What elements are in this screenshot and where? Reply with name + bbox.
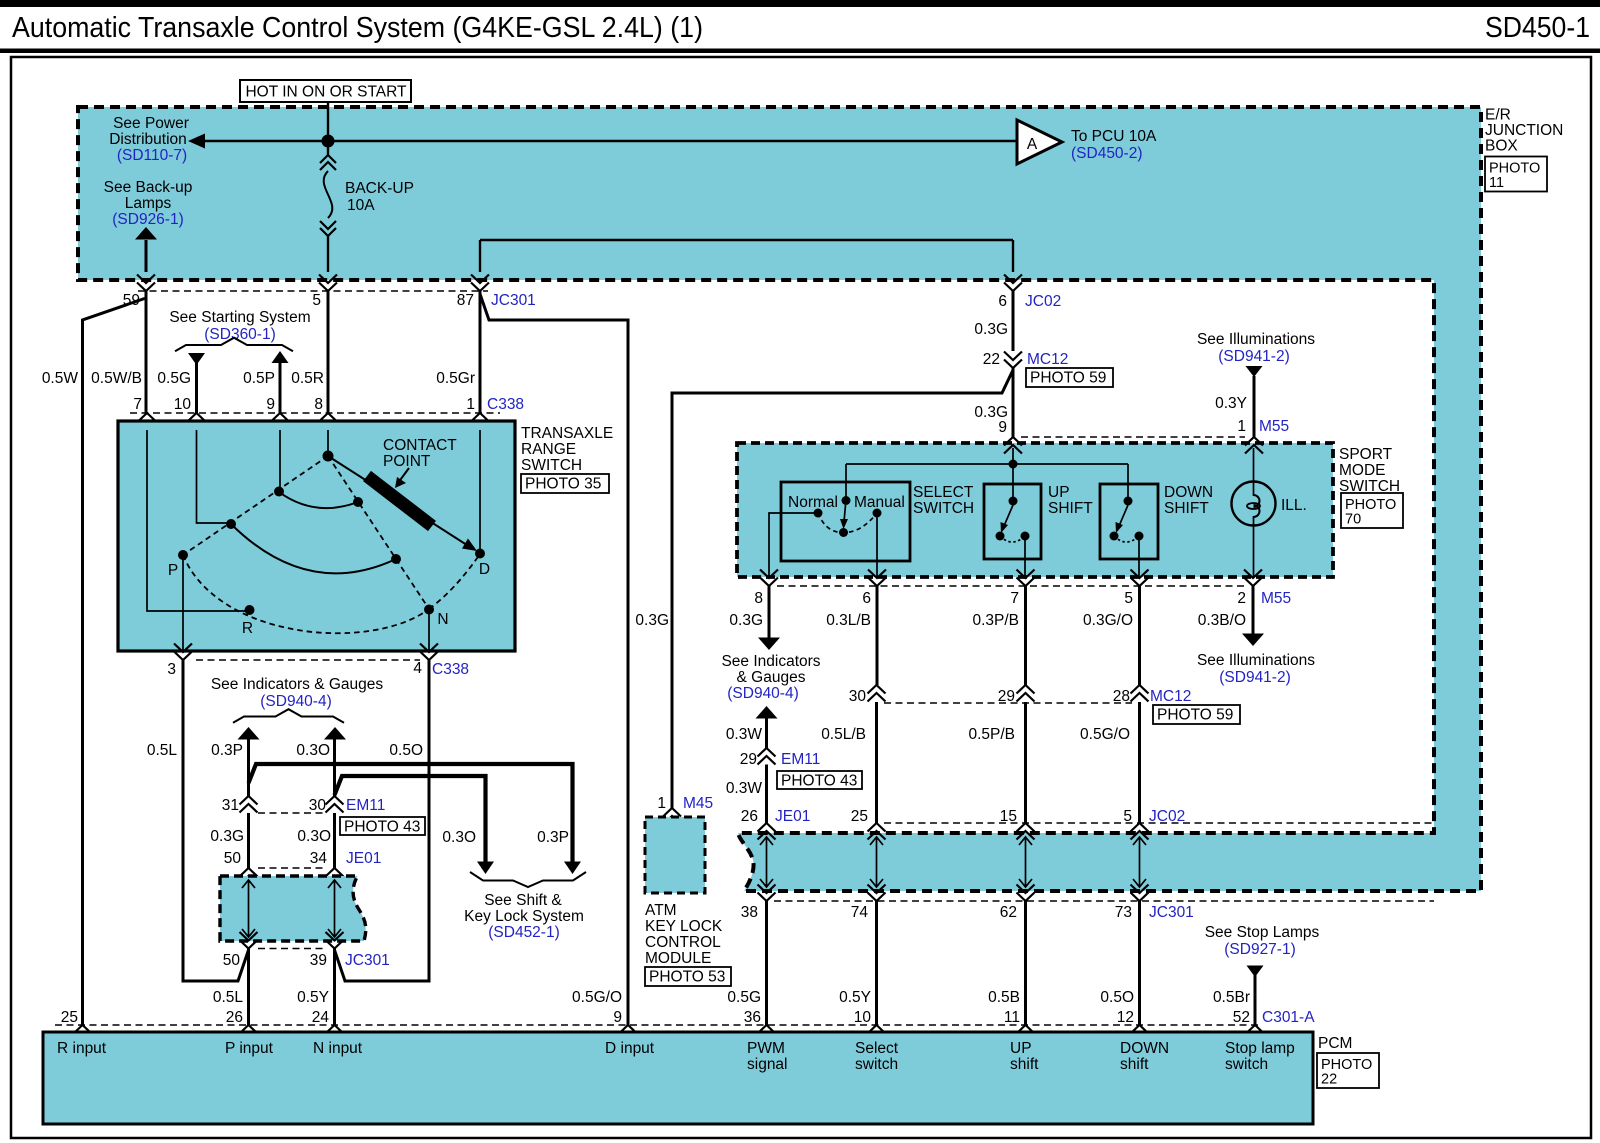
svg-text:ILL.: ILL.: [1281, 497, 1307, 514]
svg-text:10A: 10A: [347, 197, 375, 214]
harness E/R junction box shaded region: [78, 107, 1481, 891]
svg-text:12: 12: [1117, 1009, 1134, 1026]
connector PCM 26: [240, 1025, 258, 1042]
connector pin 9 C338: [271, 413, 289, 430]
svg-text:SWITCH: SWITCH: [913, 500, 974, 517]
pin line JC301 row: [138, 290, 488, 292]
svg-text:0.5L/B: 0.5L/B: [821, 726, 866, 743]
wire TRS pin1 to D: [479, 430, 481, 552]
wire manual to pin 6: [876, 513, 878, 577]
svg-text:Select: Select: [855, 1040, 899, 1057]
wire 0.3O to EM11-30: [333, 739, 336, 796]
svg-text:(SD940-4): (SD940-4): [260, 693, 332, 710]
pin line PCM: [55, 1024, 1258, 1026]
svg-text:M45: M45: [683, 795, 713, 812]
svg-text:0.3P/B: 0.3P/B: [972, 612, 1019, 629]
down shift top node: [1124, 497, 1133, 506]
down shift dotted arc: [1114, 536, 1139, 542]
wire TRS pin8 pivot: [327, 430, 329, 456]
connector 30 EM11: [326, 796, 344, 813]
connector 1 sport: [1245, 437, 1263, 454]
HOT IN ON OR START box: [240, 80, 411, 102]
pin line sport bottom: [777, 585, 1244, 587]
connector 50 JE01: [240, 868, 258, 885]
arrow see illuminations top: [1246, 366, 1263, 377]
arrow pin8 to gauges: [758, 638, 780, 651]
select normal node: [814, 509, 823, 518]
connector PCM 9: [619, 1025, 637, 1042]
node TRS R: [245, 605, 255, 615]
svg-text:9: 9: [266, 396, 275, 413]
pin line sport top: [1021, 436, 1245, 438]
wire 0.5L pin3 to JC301-50: [183, 660, 249, 981]
PCM box: [43, 1032, 1313, 1124]
svg-text:See Illuminations: See Illuminations: [1197, 331, 1315, 348]
svg-text:R input: R input: [57, 1040, 107, 1057]
svg-text:signal: signal: [747, 1056, 788, 1073]
arrow 0.3P shift key lock: [564, 862, 581, 875]
svg-text:See Back-up: See Back-up: [104, 179, 193, 196]
svg-text:1: 1: [1237, 418, 1246, 435]
svg-text:shift: shift: [1010, 1056, 1039, 1073]
pin line band top: [884, 822, 1434, 824]
svg-text:5: 5: [1124, 590, 1133, 607]
wire power feed horizontal: [204, 140, 1017, 142]
connector 5 sport: [1131, 570, 1149, 587]
svg-text:0.5G: 0.5G: [727, 989, 761, 1006]
connector 39 JC301: [326, 932, 344, 949]
connector PCM 12: [1131, 1025, 1149, 1042]
svg-text:0.3O: 0.3O: [296, 742, 330, 759]
svg-text:JUNCTION: JUNCTION: [1485, 122, 1563, 139]
wire MC12-30 to JE01-25: [875, 702, 878, 823]
svg-text:0.5R: 0.5R: [291, 370, 324, 387]
wire bus to down shift: [1127, 464, 1129, 501]
photo 43 box right: [777, 771, 862, 789]
svg-text:9: 9: [998, 419, 1007, 436]
wire EM11-29 to JE01-26: [765, 765, 768, 824]
svg-text:D: D: [479, 561, 490, 578]
node TRS P: [178, 550, 188, 560]
junction arrow left 50: [242, 880, 255, 937]
svg-text:26: 26: [226, 1009, 243, 1026]
svg-text:8: 8: [754, 590, 763, 607]
up shift top node: [1009, 497, 1018, 506]
svg-text:RANGE: RANGE: [521, 441, 576, 458]
wire down shift to pin 5: [1138, 536, 1140, 577]
wire 73 to PCM 12: [1138, 901, 1141, 1025]
svg-text:MODE: MODE: [1339, 462, 1386, 479]
up shift dotted arc: [1000, 536, 1025, 542]
pin line C338 top: [130, 412, 500, 414]
svg-text:CONTROL: CONTROL: [645, 934, 721, 951]
svg-text:5: 5: [1123, 808, 1132, 825]
svg-text:0.5Y: 0.5Y: [297, 989, 329, 1006]
svg-text:11: 11: [1004, 1009, 1020, 1026]
svg-text:1: 1: [466, 396, 475, 413]
svg-text:(SD941-2): (SD941-2): [1218, 348, 1290, 365]
connector 38 JC301 band: [758, 885, 776, 902]
wire branch 22 to M45: [672, 370, 1013, 808]
wire pin6 to MC12-30: [876, 586, 879, 685]
wire pin8 down: [768, 586, 771, 638]
svg-text:0.5L: 0.5L: [147, 742, 178, 759]
svg-text:JC301: JC301: [345, 952, 390, 969]
ATM key lock control module box: [645, 817, 705, 893]
svg-text:Normal: Normal: [788, 494, 838, 511]
wire pin5 to MC12-28: [1138, 586, 1141, 685]
svg-text:25: 25: [61, 1009, 78, 1026]
connector 8 sport: [760, 570, 778, 587]
connector 28 MC12: [1131, 685, 1149, 702]
svg-text:26: 26: [741, 808, 758, 825]
node TRS D: [475, 549, 485, 559]
select dashed arc: [818, 513, 877, 533]
svg-text:10: 10: [174, 396, 192, 413]
svg-text:A: A: [1027, 136, 1038, 153]
arrow 0.3O shift key lock: [477, 862, 494, 875]
wire 0.5Gr 87 to pin 1: [479, 291, 482, 413]
wire TRS P to pin 3: [182, 556, 184, 651]
wire TRS N to pin 4: [428, 610, 430, 651]
svg-text:See Shift &: See Shift &: [484, 892, 562, 909]
svg-text:TRANSAXLE: TRANSAXLE: [521, 425, 613, 442]
node power junction: [322, 135, 335, 148]
svg-text:PHOTO 53: PHOTO 53: [649, 969, 725, 986]
node TRS contact 10: [226, 519, 236, 529]
svg-text:SHIFT: SHIFT: [1164, 500, 1209, 517]
svg-text:EM11: EM11: [781, 751, 820, 768]
wire TRS pin7 to R: [147, 430, 249, 611]
svg-text:Lamps: Lamps: [125, 195, 172, 212]
svg-text:M55: M55: [1259, 418, 1289, 435]
junction arrow left 39: [328, 880, 341, 937]
svg-text:0.5L: 0.5L: [213, 989, 244, 1006]
pin line JC301 left row: [258, 948, 326, 950]
svg-text:See Power: See Power: [113, 115, 189, 132]
fuse BACK-UP 10A: [327, 141, 329, 155]
wire 0.3Y to M55-1: [1253, 376, 1256, 437]
connector 6 JC02: [1004, 275, 1022, 292]
svg-text:0.3B/O: 0.3B/O: [1198, 612, 1246, 629]
connector 2 sport: [1244, 570, 1262, 587]
svg-text:28: 28: [1113, 688, 1130, 705]
svg-text:JC02: JC02: [1149, 808, 1185, 825]
arrow to power distribution: [188, 134, 205, 149]
node sport junction: [1009, 460, 1018, 469]
svg-text:JC301: JC301: [491, 292, 536, 309]
band arrow select: [870, 837, 883, 887]
pin line MC12 row: [884, 702, 1132, 704]
connector 74 band: [868, 885, 886, 902]
svg-text:0.3W: 0.3W: [726, 726, 763, 743]
svg-text:UP: UP: [1010, 1040, 1032, 1057]
up shift left node: [996, 532, 1005, 541]
svg-text:Stop lamp: Stop lamp: [1225, 1040, 1295, 1057]
svg-text:BACK-UP: BACK-UP: [345, 180, 414, 197]
svg-text:0.5Y: 0.5Y: [839, 989, 871, 1006]
svg-text:11: 11: [1489, 175, 1504, 191]
down shift right node: [1135, 532, 1144, 541]
svg-text:N input: N input: [313, 1040, 363, 1057]
contact point bar: [367, 476, 432, 526]
wire 0.3P branch to shift key lock: [249, 764, 573, 862]
down shift arm: [1119, 505, 1128, 526]
svg-text:PWM: PWM: [747, 1040, 785, 1057]
svg-text:29: 29: [740, 751, 757, 768]
wire M55-1 to lamp: [1253, 448, 1255, 496]
connector 22 MC12: [1004, 352, 1022, 369]
svg-text:JC02: JC02: [1025, 293, 1061, 310]
svg-text:7: 7: [1010, 590, 1019, 607]
svg-text:SWITCH: SWITCH: [521, 457, 582, 474]
svg-text:4: 4: [413, 660, 422, 677]
svg-text:CONTACT: CONTACT: [383, 437, 457, 454]
svg-text:3: 3: [167, 661, 176, 678]
svg-text:0.5P: 0.5P: [243, 370, 275, 387]
wire 38 to PCM 36: [765, 901, 768, 1025]
svg-text:PHOTO 59: PHOTO 59: [1030, 370, 1106, 387]
svg-text:74: 74: [851, 904, 869, 921]
connector 87 JC301: [471, 275, 489, 292]
svg-text:2: 2: [1237, 590, 1246, 607]
svg-text:0.5Br: 0.5Br: [1213, 989, 1250, 1006]
wire HOT box to junction: [327, 102, 329, 141]
svg-text:30: 30: [849, 688, 867, 705]
wire back-up lamp drop: [145, 240, 148, 272]
svg-text:See Indicators & Gauges: See Indicators & Gauges: [211, 676, 384, 693]
wire 0.3O branch to shift key lock: [335, 776, 486, 862]
svg-text:N: N: [437, 611, 448, 628]
svg-text:PCM: PCM: [1318, 1035, 1352, 1052]
svg-text:(SD940-4): (SD940-4): [727, 685, 799, 702]
connector 1 M45: [663, 808, 681, 825]
dashed arc P R N: [183, 555, 429, 633]
select pole node: [839, 528, 848, 537]
svg-text:6: 6: [862, 590, 871, 607]
svg-text:0.5W: 0.5W: [42, 370, 79, 387]
wire 31 to JE01-50: [247, 813, 250, 868]
svg-text:5: 5: [312, 292, 321, 309]
wire 6 to MC12-22: [1012, 291, 1015, 351]
svg-text:SELECT: SELECT: [913, 484, 974, 501]
wire MC12-29 to JE01-15: [1024, 702, 1027, 823]
svg-text:9: 9: [613, 1009, 622, 1026]
svg-text:0.5O: 0.5O: [1100, 989, 1134, 1006]
svg-text:DOWN: DOWN: [1120, 1040, 1169, 1057]
connector pin 1 C338: [471, 413, 489, 430]
svg-text:EM11: EM11: [346, 797, 385, 814]
svg-text:0.3L/B: 0.3L/B: [826, 612, 871, 629]
connector PCM 52: [1246, 1025, 1264, 1042]
svg-text:See Stop Lamps: See Stop Lamps: [1205, 924, 1320, 941]
connector 7 sport: [1017, 570, 1035, 587]
arrow pin2 to illuminations: [1242, 634, 1264, 647]
select arm arrow: [844, 505, 846, 522]
arrow 0.5G down: [188, 353, 205, 365]
wire TRS pin10 to mid contact: [197, 430, 230, 523]
svg-text:31: 31: [222, 797, 239, 814]
pin line JE01 row: [258, 867, 326, 869]
down shift left node: [1110, 532, 1119, 541]
svg-text:0.3O: 0.3O: [442, 829, 476, 846]
svg-text:POINT: POINT: [383, 453, 431, 470]
connector 73 band: [1131, 885, 1149, 902]
wire pin2 down: [1252, 586, 1255, 634]
down shift switch box: [1100, 484, 1158, 559]
wire sport pin9 to junction: [1012, 448, 1014, 464]
arrow 0.5P up: [272, 351, 289, 363]
wire sport bus: [846, 463, 1128, 465]
svg-text:0.3Y: 0.3Y: [1215, 395, 1247, 412]
svg-text:1: 1: [657, 795, 666, 812]
wire 0.5G to pin 10: [195, 363, 198, 413]
svg-text:0.3P: 0.3P: [211, 742, 243, 759]
arrow 0.3O up: [324, 727, 346, 740]
connector 59 JC301: [137, 275, 155, 292]
svg-text:(SD452-1): (SD452-1): [488, 924, 560, 941]
svg-text:0.3W: 0.3W: [726, 780, 763, 797]
svg-text:SD450-1: SD450-1: [1485, 12, 1590, 44]
wire stop lamp to PCM 52: [1254, 975, 1257, 1025]
connector 6 sport: [868, 570, 886, 587]
svg-text:C338: C338: [487, 396, 524, 413]
photo 43 box left: [340, 817, 425, 835]
connector 31 EM11: [240, 796, 258, 813]
svg-text:50: 50: [223, 952, 241, 969]
svg-text:switch: switch: [855, 1056, 898, 1073]
photo 59 box upper: [1026, 368, 1113, 387]
svg-text:0.3G: 0.3G: [210, 828, 244, 845]
svg-text:25: 25: [851, 808, 868, 825]
svg-text:HOT IN ON OR START: HOT IN ON OR START: [245, 84, 407, 101]
svg-text:(SD110-7): (SD110-7): [117, 147, 187, 164]
connector 50 JC301: [240, 932, 258, 949]
svg-text:0.5Gr: 0.5Gr: [436, 370, 475, 387]
svg-text:MC12: MC12: [1150, 688, 1191, 705]
wire pin7 to MC12-29: [1024, 586, 1027, 685]
svg-text:JE01: JE01: [775, 808, 810, 825]
arrow up to back-up lamps: [135, 227, 157, 240]
wire up shift to pin 7: [1024, 536, 1026, 577]
svg-text:PHOTO 59: PHOTO 59: [1157, 707, 1233, 724]
wire 74 to PCM 10: [875, 901, 878, 1025]
arrow contact point callout: [398, 468, 409, 483]
select switch box: [781, 482, 910, 561]
connector 15 band: [1017, 823, 1035, 840]
svg-text:24: 24: [312, 1009, 330, 1026]
svg-text:73: 73: [1115, 904, 1132, 921]
dashed travel line pivot to P: [183, 456, 328, 555]
svg-text:38: 38: [741, 904, 758, 921]
svg-text:0.3O: 0.3O: [297, 828, 331, 845]
svg-text:22: 22: [1321, 1072, 1337, 1088]
svg-text:0.3G: 0.3G: [974, 321, 1008, 338]
svg-text:(SD450-2): (SD450-2): [1071, 145, 1143, 162]
svg-text:Key Lock System: Key Lock System: [464, 908, 584, 925]
up shift arm: [1004, 505, 1013, 526]
svg-text:0.3P: 0.3P: [537, 829, 569, 846]
svg-text:KEY LOCK: KEY LOCK: [645, 918, 723, 935]
svg-text:Manual: Manual: [854, 494, 905, 511]
svg-text:0.5G/O: 0.5G/O: [572, 989, 622, 1006]
connector PCM 25: [74, 1025, 92, 1042]
svg-text:See Indicators: See Indicators: [721, 653, 820, 670]
svg-text:shift: shift: [1120, 1056, 1149, 1073]
svg-text:R: R: [242, 620, 253, 637]
svg-text:0.3G: 0.3G: [635, 612, 669, 629]
svg-text:70: 70: [1345, 512, 1361, 528]
band arrow PWM: [760, 837, 773, 887]
svg-text:0.5G/O: 0.5G/O: [1080, 726, 1130, 743]
connector pin 8 C338: [319, 413, 337, 430]
brace indicators left: [233, 709, 344, 723]
svg-text:50: 50: [224, 850, 242, 867]
wire normal to pin 8: [769, 513, 818, 577]
svg-text:30: 30: [309, 797, 327, 814]
lamp ILL: [1232, 482, 1276, 526]
svg-text:0.5B: 0.5B: [988, 989, 1020, 1006]
contact arm pivot to D: [328, 456, 470, 547]
wire 0.5P from pin 9: [279, 361, 282, 413]
svg-text:P: P: [168, 562, 178, 579]
svg-text:E/R: E/R: [1485, 107, 1511, 124]
svg-text:8: 8: [314, 396, 323, 413]
svg-text:(SD926-1): (SD926-1): [112, 211, 184, 228]
wire internal 87 to JC02-6: [480, 240, 1013, 272]
connector PCM 11: [1017, 1025, 1035, 1042]
arrow from gauges down: [756, 706, 778, 719]
arrow 0.3P up: [238, 727, 260, 740]
svg-text:PHOTO 43: PHOTO 43: [781, 773, 857, 790]
svg-text:See Illuminations: See Illuminations: [1197, 652, 1315, 669]
svg-text:PHOTO 43: PHOTO 43: [344, 819, 420, 836]
connector pin 7 C338: [138, 413, 156, 430]
band arrow down: [1133, 837, 1146, 887]
svg-text:36: 36: [744, 1009, 761, 1026]
svg-text:7: 7: [133, 396, 142, 413]
svg-text:JC301: JC301: [1149, 904, 1194, 921]
svg-text:(SD941-2): (SD941-2): [1219, 669, 1291, 686]
svg-text:SPORT: SPORT: [1339, 446, 1393, 463]
brace starting system: [175, 338, 293, 352]
connector 29 MC12: [1017, 685, 1035, 702]
svg-text:C301-A: C301-A: [1262, 1009, 1315, 1026]
wire bus to select: [845, 464, 847, 500]
svg-text:52: 52: [1233, 1009, 1250, 1026]
title bar: [0, 0, 1600, 7]
svg-text:ATM: ATM: [645, 902, 677, 919]
up shift switch box: [984, 484, 1041, 559]
svg-text:MODULE: MODULE: [645, 950, 711, 967]
photo 59 box lower: [1153, 705, 1240, 724]
connector pin 4 C338: [420, 644, 438, 661]
connector 5 JC301: [319, 275, 337, 292]
connector 30 MC12: [868, 685, 886, 702]
brace shift key lock: [470, 872, 586, 887]
solid arc upper: [279, 492, 358, 508]
connector 5 JC02 band: [1131, 823, 1149, 840]
connector PCM 10: [868, 1025, 886, 1042]
svg-text:6: 6: [998, 293, 1007, 310]
svg-text:& Gauges: & Gauges: [737, 669, 806, 686]
connector PCM 24: [326, 1025, 344, 1042]
svg-text:D input: D input: [605, 1040, 655, 1057]
svg-text:To PCU 10A: To PCU 10A: [1071, 128, 1157, 145]
connector pin 3 C338: [174, 644, 192, 661]
pin line C338 bottom: [196, 659, 420, 661]
wire 0.5W to PCM pin 25: [83, 298, 147, 1025]
